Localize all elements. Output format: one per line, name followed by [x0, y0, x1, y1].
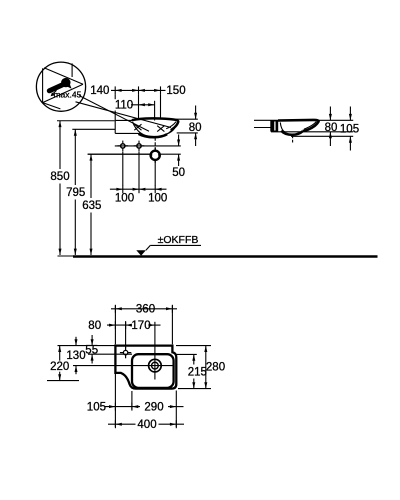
tap hole cross right	[134, 141, 145, 152]
plan top edge extension left	[58, 345, 116, 347]
drain circle front	[151, 151, 160, 160]
svg-text:±OKFFB: ±OKFFB	[158, 234, 199, 246]
side view lower reference line 80	[271, 131, 353, 133]
svg-text:100: 100	[148, 193, 167, 205]
side view left stub	[254, 127, 271, 129]
front view: bowl bottom thick arc	[139, 134, 168, 137]
dimension 50	[178, 135, 180, 146]
level marker underline	[150, 244, 201, 246]
svg-text:280: 280	[206, 362, 225, 374]
svg-text:110: 110	[115, 100, 133, 112]
svg-text:50: 50	[172, 167, 185, 179]
svg-text:140: 140	[90, 85, 109, 97]
faucet silhouette	[49, 85, 62, 91]
plan center line vertical	[154, 322, 156, 380]
detail chord left vertical	[42, 68, 44, 102]
dimension 110	[131, 104, 155, 106]
svg-text:55: 55	[85, 344, 98, 356]
dimension 360	[111, 308, 177, 310]
svg-text:150: 150	[166, 85, 185, 97]
extension right edge down	[175, 391, 177, 428]
side view top reference line	[254, 119, 353, 121]
tap hole line	[115, 145, 181, 147]
extension drain down	[154, 162, 156, 185]
side view reference line 105	[291, 135, 353, 137]
dimension 80 side	[329, 107, 331, 121]
front view: left edge	[114, 120, 116, 133]
detail chord bottom	[43, 103, 61, 109]
dimension 850 vertical	[57, 120, 115, 122]
svg-text:80: 80	[88, 320, 101, 332]
svg-text:105: 105	[87, 401, 106, 413]
plan view outer outline	[115, 346, 176, 389]
front view: underside right curve	[167, 128, 175, 134]
dimension 280	[176, 345, 211, 347]
side view rim and spout	[278, 120, 319, 131]
dimension 105/290	[105, 406, 140, 408]
dimension 80 plan and 170	[107, 324, 130, 326]
front view: drain dashed center line	[154, 138, 156, 150]
side view bracket	[270, 120, 278, 131]
svg-text:215: 215	[188, 366, 207, 378]
front view: shelf top edge	[115, 119, 133, 121]
detail chord right vertical	[71, 63, 73, 77]
plan drain line horizontal	[73, 365, 173, 367]
extension tap up	[125, 322, 127, 348]
front view: inner bowl curve	[133, 122, 174, 137]
svg-text:220: 220	[50, 361, 69, 373]
leader line 1 to basin	[79, 96, 149, 132]
side view bowl bottom thick arc	[281, 131, 303, 135]
extension 110 right tick down	[154, 101, 156, 121]
plan tap cross	[120, 347, 131, 358]
dimension 400	[108, 423, 136, 425]
svg-text:635: 635	[82, 200, 101, 212]
svg-text:290: 290	[144, 401, 163, 413]
svg-text:795: 795	[66, 187, 85, 199]
svg-text:850: 850	[50, 171, 69, 183]
plan drain circles	[149, 359, 162, 372]
tap hole cross left	[118, 141, 129, 152]
detail circle	[36, 62, 85, 111]
level marker triangle	[136, 250, 146, 255]
extension bowl curve down	[131, 391, 133, 410]
leader arrow to faucet	[52, 90, 56, 94]
svg-text:100: 100	[115, 193, 134, 205]
drain line	[88, 153, 150, 155]
extension tap2 down	[138, 152, 140, 186]
extension left edge down	[114, 374, 116, 427]
svg-text:80: 80	[189, 122, 202, 134]
svg-text:360: 360	[136, 304, 155, 316]
detail chord lower diagonal	[43, 84, 83, 102]
svg-text:max.45: max.45	[53, 90, 81, 100]
dimension line 140/150	[111, 89, 166, 91]
svg-text:105: 105	[340, 123, 359, 135]
extension tap1 down	[122, 152, 124, 186]
dimension 220	[59, 346, 61, 361]
svg-text:400: 400	[137, 419, 156, 431]
floor line	[73, 255, 378, 258]
dimension 635 vertical	[88, 153, 150, 155]
side view inner spout line	[304, 122, 316, 130]
side view inner left wall	[280, 122, 285, 131]
dimension 795 vertical	[72, 128, 115, 130]
extension left edge up	[114, 306, 116, 345]
dimension 130	[75, 337, 77, 346]
detail chord upper diagonal	[44, 68, 83, 85]
dimension 55	[91, 335, 93, 346]
plan bowl top extension left	[88, 353, 132, 355]
front view: cross mark right	[157, 126, 164, 132]
plan view bowl	[132, 354, 174, 388]
front view: rim thick arch	[132, 118, 178, 130]
dimension 215	[175, 353, 197, 355]
extension step up	[171, 306, 173, 345]
floor line thin left part	[58, 255, 75, 257]
dimension 80 front	[174, 118, 198, 120]
front view: bottom edge	[115, 132, 139, 134]
front view: cross mark left	[134, 124, 141, 130]
extension line C down	[160, 94, 162, 119]
side view dashed center line	[292, 135, 294, 142]
front view: inner tip line	[166, 122, 176, 129]
svg-text:170: 170	[131, 320, 150, 332]
extension line A down	[114, 94, 116, 99]
leader line 2 to basin	[76, 102, 172, 128]
plan 220 reference line	[47, 380, 79, 382]
svg-text:80: 80	[325, 122, 338, 134]
extension line B down	[138, 94, 140, 119]
dimension 100 100	[110, 188, 167, 190]
dimension 105 side	[349, 107, 351, 121]
